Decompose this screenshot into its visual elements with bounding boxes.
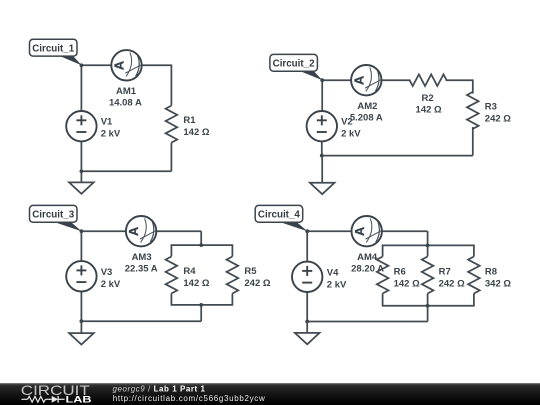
svg-text:R1: R1 (183, 115, 196, 126)
wire c1 right upper lead (170, 65, 172, 106)
svg-text:R3: R3 (485, 101, 497, 112)
svg-text:R6: R6 (394, 267, 406, 278)
wire c3 bottom (81, 320, 201, 322)
ground c4 stem (306, 322, 308, 337)
svg-text:Circuit_4: Circuit_4 (258, 210, 300, 221)
svg-text:V2: V2 (341, 117, 353, 128)
label R7 value (439, 267, 465, 290)
node c4 bottom junction (305, 320, 309, 324)
resistor R1 (166, 106, 178, 143)
label R6 value (394, 267, 420, 290)
ground c3 (69, 333, 94, 344)
svg-text:V3: V3 (101, 267, 113, 278)
label R3 value (485, 101, 511, 124)
ground c2 stem (321, 156, 323, 187)
flag Circuit_4 (255, 205, 307, 231)
label R2 value (416, 93, 442, 116)
label R4 value (183, 266, 209, 289)
wire c3 left lower (80, 292, 82, 322)
wire c4 corner down to bar (427, 231, 429, 245)
wire c2 R3 bottom lead (472, 127, 474, 156)
svg-text:2 kV: 2 kV (101, 279, 121, 290)
wire c3 top (81, 230, 126, 232)
label R1 value (183, 115, 209, 138)
svg-text:142 Ω: 142 Ω (416, 105, 442, 116)
wire c4 R7 bottom lead (427, 294, 429, 306)
logo wire left (22, 398, 28, 400)
wire c4 left upper (306, 231, 308, 262)
voltage source V3 (66, 261, 96, 291)
svg-text:142 Ω: 142 Ω (183, 278, 209, 289)
node c3 bar bottom junction (199, 303, 203, 307)
svg-text:R4: R4 (183, 266, 196, 277)
svg-text:AM2: AM2 (357, 101, 377, 112)
svg-text:R7: R7 (439, 267, 451, 278)
svg-text:2 kV: 2 kV (327, 279, 347, 290)
label AM1 value (109, 86, 142, 109)
svg-text:R8: R8 (485, 267, 497, 278)
wire c4 left lower (306, 292, 308, 321)
wire c3 corner down to bar (200, 231, 202, 245)
wire c2 corner down to R3 (472, 79, 474, 93)
svg-text:AM3: AM3 (132, 252, 152, 263)
wire c1 top right (142, 64, 172, 66)
svg-text:342 Ω: 342 Ω (485, 279, 511, 290)
svg-text:R2: R2 (422, 93, 434, 104)
svg-text:Circuit_1: Circuit_1 (32, 44, 74, 55)
label AM4 value (351, 252, 384, 275)
svg-text:142 Ω: 142 Ω (183, 127, 209, 138)
svg-text:georgc9 / Lab 1 Part 1: georgc9 / Lab 1 Part 1 (113, 384, 206, 393)
flag Circuit_1 (30, 39, 82, 65)
svg-text:Circuit_3: Circuit_3 (32, 210, 74, 221)
ground c1 (69, 182, 94, 193)
node c3 bar top junction (199, 243, 203, 247)
flag Circuit_3 (30, 205, 82, 231)
resistor R6 (377, 257, 389, 294)
resistor R2 (410, 74, 447, 86)
node c4 bar top junction (426, 244, 430, 248)
node c3 bottom junction (80, 319, 84, 323)
label R5 value (244, 266, 270, 289)
flag Circuit_2 (270, 54, 323, 80)
ground c1 stem (80, 171, 82, 186)
svg-text:V1: V1 (101, 117, 113, 128)
wire c3 bottom bar (171, 294, 232, 305)
wire c4 bottom bar (383, 294, 474, 306)
wire c2 R2 to corner (446, 79, 473, 81)
wire c2 bottom (322, 155, 473, 157)
node c2 bottom junction (320, 154, 324, 158)
svg-text:AM4: AM4 (357, 252, 378, 263)
wire c1 left lower (80, 141, 82, 171)
wire c3 ammeter to corner (156, 230, 201, 232)
wire c1 right lower lead (170, 143, 172, 172)
node c3 top junction (80, 229, 84, 233)
svg-text:14.08 A: 14.08 A (109, 98, 142, 109)
wire c1 bottom (81, 170, 171, 172)
ground c2 (310, 183, 335, 194)
resistor R3 (467, 92, 479, 129)
logo resistor zigzag (28, 396, 46, 402)
wire c1 top (81, 64, 111, 66)
resistor R8 (468, 257, 480, 294)
node c1 bottom junction (80, 169, 84, 173)
svg-text:22.35 A: 22.35 A (125, 264, 158, 275)
voltage source V2 (307, 111, 337, 141)
svg-text:2 kV: 2 kV (341, 129, 361, 140)
label V3 value (101, 267, 121, 290)
node c4 top junction (305, 229, 309, 233)
ammeter AM2 (351, 65, 381, 95)
svg-text:Circuit_2: Circuit_2 (273, 59, 315, 70)
resistor R7 (422, 257, 434, 294)
svg-text:R5: R5 (244, 266, 257, 277)
wire c4 top (307, 230, 351, 232)
ammeter AM1 (111, 50, 141, 80)
wire c4 top bar (383, 245, 474, 256)
wire c4 bar down (427, 306, 429, 322)
label AM3 value (125, 252, 158, 275)
svg-text:2 kV: 2 kV (101, 129, 121, 140)
svg-text:V4: V4 (327, 267, 339, 278)
wire c3 bar down (200, 305, 202, 321)
node c1 top junction (80, 63, 84, 67)
footer bar (0, 383, 540, 405)
voltage source V1 (66, 111, 96, 141)
resistor R5 (227, 257, 239, 294)
logo wire mid (45, 398, 51, 400)
label V1 value (101, 117, 121, 140)
wire c2 top (322, 79, 351, 81)
wire c2 left upper (321, 80, 323, 111)
ammeter AM3 (126, 216, 156, 246)
svg-text:http://circuitlab.com/c566g3ub: http://circuitlab.com/c566g3ubb2ycw (113, 394, 266, 403)
node c2 top junction (320, 78, 324, 82)
wire c3 top bar (171, 245, 232, 256)
wire c4 bottom (307, 321, 427, 323)
label V2 value (341, 117, 361, 140)
resistor R4 (166, 257, 178, 294)
wire c2 left lower (321, 142, 323, 156)
voltage source V4 (292, 262, 322, 292)
svg-text:242 Ω: 242 Ω (244, 278, 270, 289)
logo diode (52, 396, 58, 403)
ground c3 stem (80, 321, 82, 336)
wire c1 left upper (80, 65, 82, 111)
svg-text:LAB: LAB (66, 395, 93, 405)
ground c4 (295, 333, 320, 344)
svg-text:5.208 A: 5.208 A (350, 113, 383, 124)
label R8 value (485, 267, 511, 290)
svg-text:142 Ω: 142 Ω (394, 279, 420, 290)
logo wire right (58, 398, 65, 400)
wire c3 left upper (80, 231, 82, 261)
node c4 bar bottom junction (426, 304, 430, 308)
svg-text:242 Ω: 242 Ω (485, 113, 511, 124)
wire c2 ammeter to R2 (382, 79, 411, 81)
label AM2 value (350, 101, 383, 124)
svg-text:242 Ω: 242 Ω (439, 279, 465, 290)
svg-text:AM1: AM1 (116, 86, 137, 97)
label V4 value (327, 267, 347, 290)
wire c4 ammeter to corner (382, 230, 428, 232)
ammeter AM4 (352, 216, 382, 246)
wire c4 R7 top lead (427, 245, 429, 256)
